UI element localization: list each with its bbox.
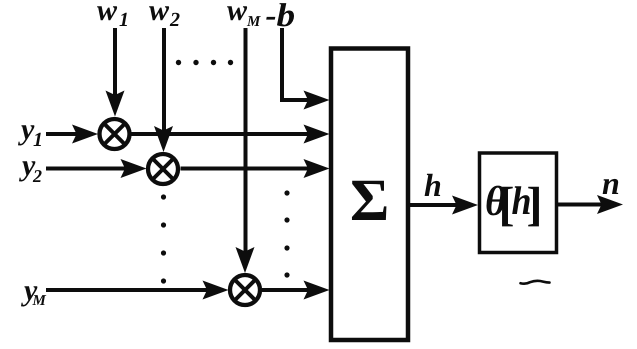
wire y2 left segment — [46, 167, 134, 171]
vertical ellipsis dots below X2 — [161, 194, 166, 283]
arrowhead w1 into multiplier X1 — [106, 91, 125, 117]
multiplier X3 — [230, 275, 260, 305]
wire -b horizontal into summer — [280, 98, 318, 102]
arrowhead y2 into summer — [304, 159, 330, 178]
arrowhead yM into summer — [304, 281, 330, 300]
label w1 — [97, 6, 127, 26]
label y2 — [19, 161, 42, 182]
arrowhead h into theta box — [452, 196, 478, 215]
wire y1 from X1 to summer — [132, 132, 319, 136]
vertical ellipsis dots left of summer — [284, 190, 289, 277]
multiplier X1 — [100, 119, 130, 149]
summer sigma symbol — [352, 181, 386, 220]
label wM — [227, 6, 261, 26]
arrowhead n output — [597, 195, 623, 214]
wire wM vertical — [244, 28, 248, 261]
wire w1 vertical — [113, 28, 117, 104]
wire -b vertical — [280, 28, 284, 100]
stray tilde mark below theta box — [521, 281, 550, 284]
threshold box U2 — [480, 153, 557, 253]
arrowhead y1 into multiplier X1 — [72, 125, 98, 144]
arrowhead wM into multiplier X3 — [236, 247, 255, 273]
wire yM left segment — [46, 288, 217, 292]
label n — [603, 179, 619, 194]
wire y2 from X2 to summer — [181, 167, 319, 171]
arrowhead -b into summer — [304, 91, 330, 110]
wire n output — [558, 203, 611, 207]
arrowhead w2 into multiplier X2 — [154, 126, 173, 152]
label y1 — [18, 125, 41, 146]
arrowhead y1 into summer — [304, 125, 330, 144]
wire w2 vertical — [162, 28, 166, 140]
arrowhead yM into multiplier X3 — [203, 281, 229, 300]
horizontal ellipsis dots between w2 and wM — [176, 60, 233, 65]
arrowhead y2 into multiplier X2 — [121, 159, 147, 178]
summer box U1 — [331, 49, 408, 341]
wire h output — [410, 203, 466, 207]
label w2 — [149, 6, 180, 26]
wire y1 left segment — [46, 132, 86, 136]
label yM — [21, 286, 46, 306]
label -b — [266, 3, 294, 26]
wire yM from X3 to summer — [262, 288, 318, 292]
multiplier X2 — [148, 154, 178, 184]
threshold function label theta[h] — [487, 186, 539, 227]
label h — [425, 174, 441, 196]
